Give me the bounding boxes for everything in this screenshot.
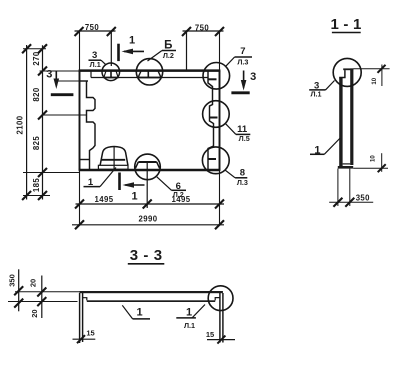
bottom cap: [338, 166, 353, 169]
svg-text:3: 3: [46, 68, 52, 80]
section 3-3: texts: [7, 274, 214, 339]
svg-text:Л.1: Л.1: [184, 321, 195, 330]
label 8/Л.3: [225, 170, 247, 178]
top face band: [80, 291, 223, 293]
section view 1-1 title: [330, 16, 361, 33]
svg-text:1: 1: [186, 307, 192, 319]
svg-text:20: 20: [29, 279, 38, 287]
dimension 2990 (bottom): [72, 220, 224, 229]
section 3-3: panel plan section: [80, 291, 223, 343]
svg-text:750: 750: [195, 23, 209, 32]
section mark 1 (bottom): [120, 173, 145, 191]
svg-text:1: 1: [131, 191, 137, 203]
keyway joint detail on top edge (in circle 3): [104, 72, 118, 78]
svg-text:750: 750: [85, 23, 99, 32]
lifting recess (bell) on bottom edge: [98, 146, 128, 169]
section mark 1 (top): [119, 44, 145, 61]
right rib: [219, 293, 221, 343]
section 1-1: top extension line and 10-dim: [353, 65, 389, 87]
svg-text:7: 7: [240, 46, 245, 57]
svg-text:15: 15: [206, 330, 214, 339]
section 1-1: bottom extension line and 10-dim: [353, 153, 388, 172]
right step: [215, 298, 220, 301]
section 3-3: callout circle 1/Л.1: [208, 286, 233, 311]
section 3-3: 15 dimension (left rib): [73, 335, 96, 343]
right edge joint profile: [208, 72, 218, 170]
svg-text:Л.1: Л.1: [90, 60, 101, 69]
svg-text:Л.2: Л.2: [173, 190, 184, 199]
section 3-3: extension lines left: [8, 292, 80, 302]
svg-text:Л.3: Л.3: [237, 58, 248, 67]
svg-text:1495: 1495: [95, 195, 114, 204]
svg-text:3 - 3: 3 - 3: [130, 247, 163, 264]
dimension 1495 / 1495 (bottom): [75, 200, 224, 209]
svg-text:Л.3: Л.3: [237, 178, 248, 187]
svg-text:185: 185: [32, 178, 41, 192]
svg-text:1: 1: [129, 35, 135, 47]
section mark 3 (right): [231, 71, 249, 93]
dimension 750 (top right): [182, 27, 224, 70]
section 3-3: left dimensions 20/20: [37, 276, 46, 319]
svg-text:350: 350: [7, 274, 16, 287]
section 1-1: panel cross-section: [338, 68, 354, 168]
svg-text:15: 15: [86, 329, 94, 338]
label 7/Л.3: [226, 57, 252, 66]
right face band: [350, 68, 353, 165]
label 3/Л.1 (top left): [89, 60, 107, 65]
section view 3-3 title: [130, 247, 163, 264]
svg-text:820: 820: [32, 87, 41, 101]
keyway joint detail on top edge (in circle Б): [104, 72, 162, 78]
svg-text:Б: Б: [164, 40, 172, 52]
left dimension chain 270/820/825/185: [38, 44, 47, 200]
svg-text:1: 1: [136, 307, 142, 319]
top edge inner line: [91, 71, 208, 78]
section 1-1: 350 dimension: [329, 169, 373, 207]
section 3-3: label 1 (middle): [122, 305, 150, 319]
section 1-1: callout circle 3/Л.1: [333, 58, 361, 86]
left edge keyway profile: [43, 81, 95, 170]
svg-text:8: 8: [240, 168, 245, 179]
label 6/Л.2: [157, 177, 186, 191]
inner face line: [87, 300, 215, 302]
svg-text:20: 20: [30, 309, 39, 317]
svg-text:3: 3: [250, 71, 256, 83]
section 1-1: label 3/Л.1: [309, 81, 334, 90]
svg-text:2100: 2100: [16, 115, 25, 134]
section 3-3: left dimension 350: [14, 269, 23, 311]
section 3-3: 15 dimension (right rib): [207, 336, 235, 344]
svg-text:Л.2: Л.2: [163, 51, 174, 60]
keyway detail on bottom edge (in circle 6): [135, 162, 159, 208]
svg-text:1: 1: [314, 144, 320, 156]
top cap: [343, 68, 353, 70]
svg-text:Л.1: Л.1: [310, 90, 321, 99]
section 1-1: texts: [310, 77, 377, 202]
svg-text:10: 10: [371, 155, 377, 162]
svg-text:1 - 1: 1 - 1: [330, 16, 361, 33]
left step: [83, 298, 87, 301]
section 1-1: label 1: [310, 138, 340, 154]
extension lines (left dims): [23, 49, 80, 196]
panel outline (elevation): [79, 31, 221, 226]
callout circle 8/Л.3: [202, 147, 229, 174]
callout circle Б/Л.2: [136, 59, 162, 85]
label 1 (lifting recess): [84, 168, 117, 187]
svg-text:10: 10: [372, 77, 378, 84]
svg-text:2990: 2990: [139, 215, 158, 224]
top step (rebate): [339, 70, 345, 77]
callout circle 11/Л.5: [203, 101, 230, 128]
left face band: [339, 78, 342, 167]
callout circle 6/Л.2: [135, 154, 161, 180]
label Б/Л.2: [148, 51, 177, 62]
left overall dimension 2100: [22, 44, 31, 200]
callout circle 7/Л.3: [203, 63, 230, 90]
callout circle 3/Л.1: [102, 63, 120, 81]
dimension 750 (top left): [75, 27, 116, 66]
label 11/Л.5: [225, 123, 250, 134]
svg-text:350: 350: [356, 193, 370, 202]
svg-text:1: 1: [88, 177, 94, 188]
dimension texts (elevation): [16, 23, 210, 224]
section mark 3 (left): [51, 72, 74, 95]
section 3-3: label 1/Л.1 (right): [176, 305, 205, 318]
callout label texts: [46, 35, 256, 203]
left rib: [79, 293, 81, 343]
svg-text:825: 825: [32, 136, 41, 150]
svg-text:Л.5: Л.5: [239, 134, 250, 143]
svg-text:270: 270: [32, 51, 41, 65]
